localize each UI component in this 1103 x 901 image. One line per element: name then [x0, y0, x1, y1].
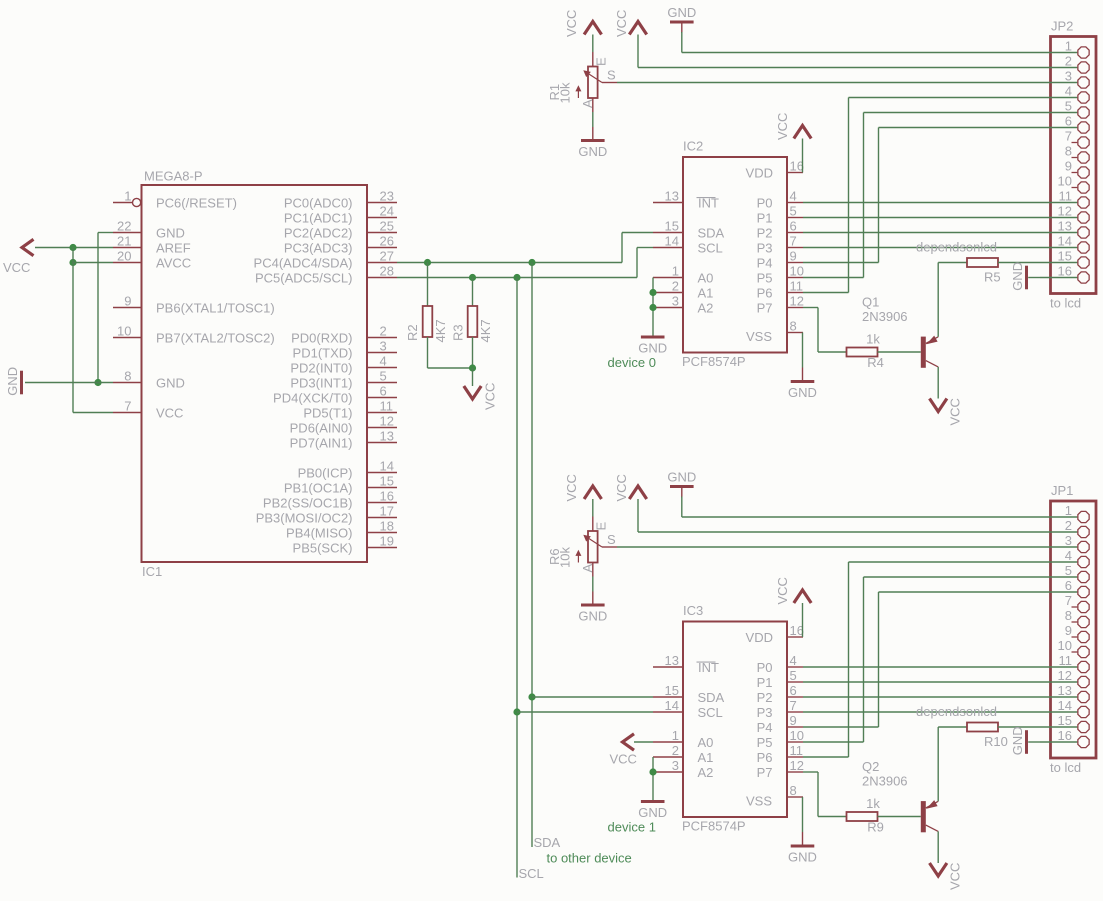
JP1 pin 15 — [1040, 726, 1077, 728]
svg-text:Q1: Q1 — [862, 295, 879, 310]
IC1 pin 4 PD2(INT0) — [367, 367, 397, 369]
JP2 pin 1 — [1040, 52, 1077, 54]
svg-text:VCC: VCC — [610, 752, 637, 767]
IC3 pin 12 P7 — [787, 771, 803, 773]
JP1 pin 4 — [1040, 561, 1077, 563]
svg-text:3: 3 — [1065, 533, 1072, 548]
svg-text:P2: P2 — [757, 225, 773, 240]
ground above IC2 feeding JP2 pin 1 — [670, 21, 694, 24]
ground at JP1 pin 16 — [1025, 730, 1028, 754]
IC2 pin 6 P2 — [787, 232, 803, 234]
svg-text:23: 23 — [380, 189, 394, 204]
svg-text:VCC: VCC — [775, 113, 790, 140]
wire IC2 P7 to R4 — [803, 307, 818, 309]
svg-text:15: 15 — [380, 474, 394, 489]
Q2 collector — [926, 825, 938, 831]
VCC arrow at IC3 A0 — [623, 734, 635, 750]
wire SDA trunk to IC3 pin 15 — [532, 696, 653, 698]
wire R6 S terminal to JP1 pin 3 — [602, 546, 617, 548]
svg-text:MEGA8-P: MEGA8-P — [144, 169, 203, 184]
svg-text:20: 20 — [117, 249, 131, 264]
JP1 pin 9 — [1072, 636, 1078, 638]
svg-text:GND: GND — [5, 367, 20, 396]
svg-text:14: 14 — [665, 698, 679, 713]
svg-text:6: 6 — [790, 683, 797, 698]
resistor R9 1k — [847, 812, 878, 821]
IC1 pin 21 AREF — [113, 247, 142, 249]
svg-text:4: 4 — [790, 653, 797, 668]
IC1 pin 25 PC2(ADC2) — [367, 232, 397, 234]
resistor R10 (depends on lcd) — [967, 723, 998, 732]
wire R4 to Q1 base — [878, 351, 921, 353]
svg-text:3: 3 — [672, 294, 679, 309]
JP1 pin 6 — [1040, 591, 1077, 593]
IC IC2 PCF8574P body — [683, 157, 787, 353]
svg-text:R5: R5 — [984, 270, 1001, 285]
JP1 pin 1 — [1040, 516, 1077, 518]
JP1 pin 2 — [1040, 531, 1077, 533]
svg-text:IC2: IC2 — [683, 139, 703, 154]
wire SDA trunk vertical — [531, 263, 533, 848]
svg-text:PB0(ICP): PB0(ICP) — [298, 465, 353, 480]
svg-text:PD0(RXD): PD0(RXD) — [291, 330, 352, 345]
wire GND pin22 down to pin8 row — [97, 233, 99, 383]
svg-text:PC6(/RESET): PC6(/RESET) — [156, 195, 237, 210]
svg-text:to lcd: to lcd — [1050, 296, 1081, 311]
R6 adjust arrow — [577, 553, 579, 563]
ground at JP2 pin 16 — [1025, 266, 1028, 290]
wire R6 A terminal to ground — [592, 563, 594, 577]
wire IC3 VSS to ground — [802, 797, 804, 832]
IC1 pin 7 VCC — [113, 412, 142, 414]
IC1 pin 5 PD3(INT1) — [367, 382, 397, 384]
connector JP1 body — [1051, 501, 1097, 758]
svg-text:P0: P0 — [757, 660, 773, 675]
JP1 pin 5 — [1040, 576, 1077, 578]
IC1 pin 6 PD4(XCK/T0) — [367, 397, 397, 399]
svg-text:GND: GND — [788, 849, 817, 864]
IC2 pin 4 P0 — [787, 202, 803, 204]
svg-text:P3: P3 — [757, 705, 773, 720]
VCC arrow below Q2 — [930, 863, 947, 876]
JP2 pin 14 — [1040, 247, 1077, 249]
svg-text:dependsonlcd: dependsonlcd — [916, 704, 997, 719]
wire IC2 P4 to JP2 pin 6 — [803, 262, 879, 264]
transistor Q1 2N3906 base bar — [921, 337, 926, 368]
JP1 pin 10 — [1072, 651, 1078, 653]
IC2 pin 14 SCL — [653, 247, 683, 249]
svg-text:Q2: Q2 — [862, 759, 879, 774]
IC3 pin 4 P0 — [787, 666, 803, 668]
IC IC1 MEGA8-P body — [142, 185, 368, 562]
svg-text:GND: GND — [578, 144, 607, 159]
svg-text:VCC: VCC — [156, 405, 183, 420]
IC3 pin 15 SDA — [653, 696, 683, 698]
junction A2 IC3 — [649, 768, 656, 775]
svg-text:SDA: SDA — [698, 225, 725, 240]
wire IC2 VSS to ground — [802, 333, 804, 368]
JP1 pin 13 — [1040, 696, 1077, 698]
wire SCL from IC1 pin 28 — [397, 277, 637, 279]
svg-text:VCC: VCC — [3, 260, 30, 275]
svg-text:15: 15 — [665, 683, 679, 698]
JP2 pin 10 — [1072, 187, 1078, 189]
svg-text:PB4(MISO): PB4(MISO) — [286, 525, 352, 540]
svg-text:16: 16 — [790, 159, 804, 174]
IC1 pin 3 PD1(TXD) — [367, 352, 397, 354]
svg-text:9: 9 — [1065, 159, 1072, 174]
IC3 pin 6 P2 — [787, 696, 803, 698]
svg-text:device 1: device 1 — [608, 820, 656, 835]
wire IC3 P5 to JP1 pin 5 — [803, 741, 864, 743]
wire GND pin 22 stub — [98, 232, 113, 234]
svg-text:6: 6 — [790, 219, 797, 234]
svg-text:PCF8574P: PCF8574P — [682, 819, 746, 834]
svg-text:13: 13 — [1058, 219, 1072, 234]
svg-text:6: 6 — [1065, 114, 1072, 129]
svg-text:P3: P3 — [757, 240, 773, 255]
svg-text:GND: GND — [1010, 262, 1025, 291]
IC2 pin 3 A2 — [653, 307, 683, 309]
IC3 pin 9 P4 — [787, 726, 803, 728]
svg-text:VDD: VDD — [746, 630, 773, 645]
svg-text:PD6(AIN0): PD6(AIN0) — [290, 420, 353, 435]
R6 wiper arrow — [585, 536, 602, 547]
svg-text:PB5(SCK): PB5(SCK) — [293, 540, 353, 555]
svg-text:17: 17 — [380, 504, 394, 519]
svg-text:15: 15 — [665, 219, 679, 234]
svg-text:P4: P4 — [757, 720, 773, 735]
IC2 pin 7 P3 — [787, 247, 803, 249]
IC1 pin 27 PC4(ADC4/SDA) — [367, 262, 397, 264]
svg-text:AVCC: AVCC — [156, 255, 191, 270]
svg-text:5: 5 — [1065, 563, 1072, 578]
IC1 pin 20 AVCC — [113, 262, 142, 264]
JP2 pin 7 — [1072, 142, 1078, 144]
svg-text:SCL: SCL — [698, 705, 723, 720]
IC3 pin 1 A0 — [653, 741, 683, 743]
svg-text:1: 1 — [672, 728, 679, 743]
svg-text:4K7: 4K7 — [433, 319, 448, 342]
svg-text:E: E — [594, 57, 609, 66]
JP1 pin 12 — [1040, 681, 1077, 683]
svg-text:2: 2 — [672, 743, 679, 758]
wire SCL riser — [636, 248, 638, 278]
svg-text:R2: R2 — [405, 324, 420, 341]
IC1 pin 19 PB5(SCK) — [367, 547, 397, 549]
svg-text:VCC: VCC — [614, 10, 629, 37]
svg-text:21: 21 — [117, 234, 131, 249]
svg-text:1k: 1k — [866, 796, 880, 811]
wire ground to JP1 pin 16 — [1028, 741, 1040, 743]
IC1 pin 28 PC5(ADC5/SCL) — [367, 277, 397, 279]
svg-text:A2: A2 — [698, 765, 714, 780]
svg-text:3: 3 — [380, 339, 387, 354]
resistor R2 4K7 pullup — [427, 263, 429, 307]
IC1 pin 17 PB3(MOSI/OC2) — [367, 517, 397, 519]
svg-text:SCL: SCL — [698, 240, 723, 255]
wire ground to JP2 pin 16 — [1028, 277, 1040, 279]
wire R10 to JP1 pin 15 — [998, 726, 1040, 728]
Q1 emitter — [926, 337, 938, 344]
resistor R4 1k — [847, 348, 878, 357]
wire VCC to IC3 A0 — [634, 741, 653, 743]
JP2 pin 4 — [1040, 97, 1077, 99]
IC3 pin 11 P6 — [787, 756, 803, 758]
wire Q2 emitter to R10 — [937, 727, 939, 801]
wire IC2 P0 to JP2 pin 11 — [803, 202, 1040, 204]
svg-text:PB6(XTAL1/TOSC1): PB6(XTAL1/TOSC1) — [156, 300, 275, 315]
svg-text:P0: P0 — [757, 195, 773, 210]
junction VCC/AVCC — [69, 259, 76, 266]
VCC supply arrow to JP2 pin 2 — [629, 22, 646, 35]
svg-text:3: 3 — [672, 758, 679, 773]
svg-text:VCC: VCC — [948, 863, 963, 890]
wire ground to JP1 pin 1 — [681, 497, 683, 518]
svg-text:SDA: SDA — [534, 835, 561, 850]
svg-text:PB2(SS/OC1B): PB2(SS/OC1B) — [263, 495, 353, 510]
svg-text:12: 12 — [790, 294, 804, 309]
ground below R1 — [581, 139, 605, 142]
JP2 pin 6 — [1040, 127, 1077, 129]
svg-text:4: 4 — [380, 354, 387, 369]
svg-text:7: 7 — [790, 698, 797, 713]
JP2 pin 9 — [1072, 172, 1078, 174]
junction SCL trunk to IC3 — [513, 708, 520, 715]
JP2 pin 13 — [1040, 232, 1077, 234]
junction SCL trunk — [513, 274, 520, 281]
potentiometer R6 10k body — [588, 531, 598, 563]
svg-text:R10: R10 — [984, 734, 1008, 749]
wire IC2 P6 to JP2 pin 4 — [803, 292, 849, 294]
VCC supply arrow above R6 — [584, 486, 601, 499]
wire IC3 P7 to R9 — [803, 771, 818, 773]
IC1 pin 26 PC3(ADC3) — [367, 247, 397, 249]
IC3 pin 3 A2 — [653, 771, 683, 773]
svg-text:GND: GND — [1010, 726, 1025, 755]
wire Q1 emitter to R5 — [937, 263, 939, 337]
wire IC3 P1 to JP1 pin 12 — [803, 681, 1040, 683]
svg-text:to lcd: to lcd — [1050, 760, 1081, 775]
svg-text:PD1(TXD): PD1(TXD) — [293, 345, 353, 360]
ground at IC3 VSS — [791, 845, 815, 848]
svg-text:15: 15 — [1058, 713, 1072, 728]
svg-text:A1: A1 — [698, 285, 714, 300]
svg-text:VSS: VSS — [746, 794, 772, 809]
svg-text:PC3(ADC3): PC3(ADC3) — [284, 240, 353, 255]
VCC supply arrow at IC3 VDD — [794, 590, 811, 603]
svg-text:P7: P7 — [757, 765, 773, 780]
svg-text:R4: R4 — [867, 355, 884, 370]
svg-text:10k: 10k — [558, 547, 573, 568]
wire IC3 P6 to JP1 pin 4 — [803, 756, 849, 758]
IC1 pin 22 GND — [113, 232, 142, 234]
wire VCC arrow down to JP2 pin 2 — [637, 35, 639, 68]
IC1 pin 14 PB0(ICP) — [367, 472, 397, 474]
svg-text:1: 1 — [124, 189, 131, 204]
svg-text:R3: R3 — [451, 324, 466, 341]
junction VCC/AREF — [69, 244, 76, 251]
JP1 pin 7 — [1072, 606, 1078, 608]
IC1 pin 10 PB7(XTAL2/TOSC2) — [113, 337, 142, 339]
svg-text:16: 16 — [380, 489, 394, 504]
svg-text:11: 11 — [1059, 189, 1073, 204]
svg-text:GND: GND — [667, 5, 696, 20]
svg-text:16: 16 — [790, 623, 804, 638]
svg-text:4K7: 4K7 — [478, 319, 493, 342]
IC3 pin 10 P5 — [787, 741, 803, 743]
svg-text:19: 19 — [380, 534, 394, 549]
junction SDA trunk to IC3 — [528, 693, 535, 700]
svg-text:PC1(ADC1): PC1(ADC1) — [284, 210, 353, 225]
svg-text:GND: GND — [638, 340, 667, 355]
IC1 pin 8 GND — [113, 382, 142, 384]
svg-text:10: 10 — [790, 728, 804, 743]
IC2 pin 13 INT — [653, 202, 683, 204]
wire to VCC pin 7 — [73, 412, 113, 414]
svg-text:PC4(ADC4/SDA): PC4(ADC4/SDA) — [254, 255, 353, 270]
svg-text:14: 14 — [380, 459, 394, 474]
wire IC3 P4 to JP1 pin 6 — [803, 726, 879, 728]
svg-text:4: 4 — [1065, 548, 1072, 563]
svg-text:PB3(MOSI/OC2): PB3(MOSI/OC2) — [256, 510, 353, 525]
svg-text:1: 1 — [1065, 39, 1072, 54]
IC1 pin 23 PC0(ADC0) — [367, 202, 397, 204]
svg-text:8: 8 — [124, 369, 131, 384]
svg-text:8: 8 — [1065, 144, 1072, 159]
wire VCC to R1 E terminal — [592, 35, 594, 53]
svg-text:11: 11 — [1059, 653, 1073, 668]
svg-text:PB1(OC1A): PB1(OC1A) — [284, 480, 353, 495]
svg-text:device 0: device 0 — [608, 355, 656, 370]
wire SDA riser — [621, 233, 623, 263]
svg-text:3: 3 — [1065, 69, 1072, 84]
svg-text:9: 9 — [790, 249, 797, 264]
IC2 pin 9 P4 — [787, 262, 803, 264]
wire IC3 P0 to JP1 pin 11 — [803, 666, 1040, 668]
svg-text:11: 11 — [380, 399, 394, 414]
svg-text:1: 1 — [672, 264, 679, 279]
JP2 pin 2 — [1040, 67, 1077, 69]
JP1 pin 8 — [1072, 621, 1078, 623]
IC1 pin 12 PD6(AIN0) — [367, 427, 397, 429]
wire R5 to JP2 pin 15 — [998, 262, 1040, 264]
svg-text:R9: R9 — [867, 820, 884, 835]
svg-text:P4: P4 — [757, 255, 773, 270]
svg-text:A0: A0 — [698, 270, 714, 285]
ground below R6 — [581, 604, 605, 607]
svg-text:PD5(T1): PD5(T1) — [303, 405, 352, 420]
wire SCL trunk vertical — [516, 278, 518, 878]
svg-text:JP1: JP1 — [1051, 483, 1073, 498]
svg-text:13: 13 — [665, 189, 679, 204]
svg-text:27: 27 — [380, 249, 394, 264]
svg-text:A0: A0 — [698, 735, 714, 750]
svg-text:10: 10 — [117, 324, 131, 339]
svg-text:9: 9 — [1065, 623, 1072, 638]
svg-text:VCC: VCC — [775, 577, 790, 604]
svg-text:13: 13 — [380, 429, 394, 444]
svg-text:16: 16 — [1058, 264, 1072, 279]
VCC arrow below Q1 — [930, 399, 947, 412]
svg-text:IC1: IC1 — [142, 564, 162, 579]
svg-text:PD4(XCK/T0): PD4(XCK/T0) — [273, 390, 352, 405]
transistor Q2 2N3906 base bar — [921, 801, 926, 832]
wire IC3 P2 to JP1 pin 13 — [803, 696, 1040, 698]
svg-text:E: E — [594, 522, 609, 531]
svg-text:GND: GND — [788, 385, 817, 400]
svg-text:PD3(INT1): PD3(INT1) — [290, 375, 352, 390]
svg-text:PB7(XTAL2/TOSC2): PB7(XTAL2/TOSC2) — [156, 330, 275, 345]
svg-text:24: 24 — [380, 204, 394, 219]
R1 wiper arrow — [585, 72, 602, 83]
IC2 pin 1 A0 — [653, 277, 683, 279]
wire IC2 P3 to JP2 pin 14 — [803, 247, 1040, 249]
svg-text:PC2(ADC2): PC2(ADC2) — [284, 225, 353, 240]
svg-text:VCC: VCC — [948, 398, 963, 425]
junction A1 IC2 — [649, 289, 656, 296]
Q2 emitter — [926, 801, 938, 808]
svg-text:16: 16 — [1058, 728, 1072, 743]
svg-text:14: 14 — [665, 234, 679, 249]
wire VCC to R6 E terminal — [592, 499, 594, 517]
IC2 pin 8 VSS — [787, 332, 803, 334]
IC3 pin 7 P3 — [787, 711, 803, 713]
svg-text:9: 9 — [790, 713, 797, 728]
svg-text:GND: GND — [156, 225, 185, 240]
IC1 pin 16 PB2(SS/OC1B) — [367, 502, 397, 504]
svg-text:11: 11 — [790, 743, 804, 758]
svg-text:VCC: VCC — [483, 383, 498, 410]
IC2 pin 12 P7 — [787, 307, 803, 309]
IC1 pin 9 PB6(XTAL1/TOSC1) — [113, 307, 142, 309]
svg-text:VCC: VCC — [564, 10, 579, 37]
junction R2/R3 bottoms — [469, 364, 476, 371]
IC1 pin 2 PD0(RXD) — [367, 337, 397, 339]
svg-text:8: 8 — [1065, 608, 1072, 623]
svg-text:25: 25 — [380, 219, 394, 234]
svg-text:JP2: JP2 — [1051, 19, 1073, 34]
resistor R5 (depends on lcd) — [967, 258, 998, 267]
wire junction to AVCC pin 20 — [73, 262, 113, 264]
ground symbol left of IC1 — [20, 371, 23, 395]
wire IC2 P1 to JP2 pin 12 — [803, 217, 1040, 219]
svg-text:12: 12 — [790, 758, 804, 773]
potentiometer R1 10k body — [588, 67, 598, 99]
svg-text:IC3: IC3 — [683, 603, 703, 618]
IC1 pin 15 PB1(OC1A) — [367, 487, 397, 489]
JP1 pin 16 — [1040, 741, 1077, 743]
IC1 pin 18 PB4(MISO) — [367, 532, 397, 534]
wire R2 bottom to R3 bottom — [428, 367, 473, 369]
IC2 pin 16 VDD — [787, 172, 803, 174]
wire Q2 collector to VCC — [937, 831, 939, 863]
wire SCL trunk to IC3 pin 14 — [517, 711, 653, 713]
svg-text:8: 8 — [790, 783, 797, 798]
junction SDA at R2 — [424, 259, 431, 266]
VCC arrow below R2/R3 — [472, 368, 474, 386]
svg-text:10: 10 — [1058, 638, 1072, 653]
IC3 pin 14 SCL — [653, 711, 683, 713]
svg-text:P7: P7 — [757, 300, 773, 315]
JP2 pin 8 — [1072, 157, 1078, 159]
svg-text:18: 18 — [380, 519, 394, 534]
svg-text:PD2(INT0): PD2(INT0) — [290, 360, 352, 375]
svg-text:4: 4 — [1065, 84, 1072, 99]
IC2 pin 10 P5 — [787, 277, 803, 279]
svg-text:2: 2 — [1065, 54, 1072, 69]
R1 adjust arrow — [577, 88, 579, 98]
